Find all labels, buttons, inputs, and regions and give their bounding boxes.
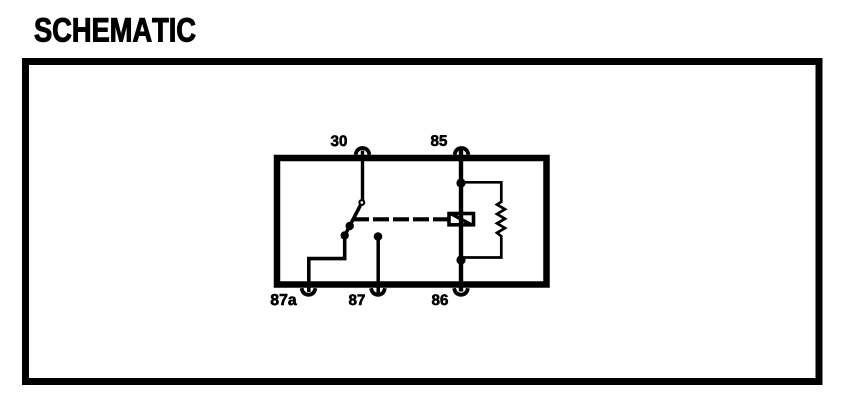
relay K1 body outline xyxy=(277,158,547,285)
resistor R1 (parallel with coil) xyxy=(461,182,505,257)
coil L1 xyxy=(449,214,474,225)
actuation dashed link: arm to coil xyxy=(353,217,448,221)
pin 87a terminal xyxy=(302,288,316,295)
junction dot: 85 branch to resistor xyxy=(456,178,465,187)
junction: arm end dot xyxy=(341,231,349,239)
wire: pin 30 to switch pivot xyxy=(361,151,364,201)
pin 87a label xyxy=(271,294,297,305)
pin 86 label xyxy=(432,294,448,305)
NO contact dot (pin 87) xyxy=(374,232,383,241)
pin 30 terminal xyxy=(356,148,370,155)
pin 30 label xyxy=(331,135,347,146)
wire: pin 85 to pin 86 through coil xyxy=(459,150,463,292)
switch arm xyxy=(345,205,361,235)
pin 87 label xyxy=(349,294,365,305)
pin 85 label xyxy=(431,135,447,146)
pin 87 terminal xyxy=(371,288,385,295)
junction: moving contact dot xyxy=(346,222,354,230)
switch pivot circle (common, pin 30) xyxy=(359,200,364,205)
wire: contact dot to pin 87 xyxy=(376,237,380,295)
pin 85 terminal xyxy=(455,148,469,155)
pin 86 terminal xyxy=(454,288,468,295)
junction dot: 86 branch to resistor xyxy=(456,255,465,264)
wire: arm to pin 87a xyxy=(309,236,345,293)
title SCHEMATIC xyxy=(35,18,196,42)
